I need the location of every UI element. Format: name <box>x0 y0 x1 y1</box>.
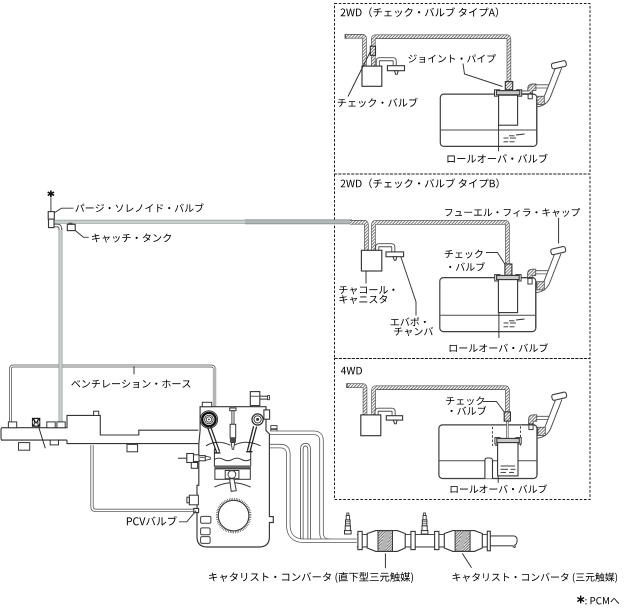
hose: stub to canister (4WD) <box>348 386 365 416</box>
exhaust flange studs <box>271 426 277 429</box>
title 2WD type A <box>341 7 499 17</box>
dashed box: 4WD option <box>335 359 591 500</box>
filler vapor elbow (B) <box>528 269 536 278</box>
fuel level line (B) <box>440 314 535 316</box>
spark plug <box>230 408 236 411</box>
label: charcoal canister line1 (B) <box>339 286 394 295</box>
title 2WD type B <box>341 178 499 188</box>
label: fuel filler cap (B) <box>445 208 580 217</box>
evapo chamber (A) <box>387 66 404 71</box>
tank edge re-stroke (4WD) <box>536 429 538 475</box>
freeze plugs on block side <box>201 516 211 523</box>
charcoal canister (A) <box>362 66 382 86</box>
label: PCV valve <box>127 516 177 525</box>
catalyst substrate hatch (close-coupled TWC) <box>378 531 393 552</box>
leader: catalytic converter 2 <box>462 553 471 567</box>
dashed box: 2WD check-valve type B option <box>335 174 591 359</box>
leader: ventilation hose <box>133 366 135 374</box>
throttle motor symbol M <box>32 418 40 427</box>
flange ring 3 <box>435 531 439 549</box>
fuel level line (A) <box>441 129 536 131</box>
flywheel with ring gear teeth <box>216 498 252 534</box>
connecting rod <box>230 479 237 492</box>
pipe: canister to evapo chamber (4WD) <box>377 410 394 416</box>
check valve (A) <box>370 46 375 55</box>
pipe: canister to evapo chamber (B) <box>377 245 393 252</box>
piston ring band <box>214 465 251 468</box>
hose: main purge line into canister (B) <box>350 222 366 251</box>
tail pipe <box>490 536 514 546</box>
dashed locator box (4WD valve area) <box>493 425 521 445</box>
fuel tank (B) <box>440 278 536 332</box>
leader: joint pipe (A) <box>463 64 503 87</box>
leader: purge solenoid valve <box>55 208 74 212</box>
ventilation hose (big loop to cam cover) <box>11 366 215 427</box>
label: check valve line2 (B) <box>449 262 485 271</box>
catalytic converter body (underfloor TWC) <box>444 531 482 552</box>
leader: PCV valve <box>179 511 196 522</box>
wire from motor symbol <box>39 427 46 449</box>
head right boss <box>264 410 270 419</box>
engine block and cylinder head outline <box>197 407 273 547</box>
evapo chamber (B) <box>386 252 404 257</box>
tank edge re-stroke (A) <box>536 99 538 143</box>
label: evapo chamber line2 (B) <box>394 327 433 336</box>
leader: check valve (A) <box>348 52 370 97</box>
leader: evapo chamber (B) <box>401 257 416 316</box>
wire from asterisk to purge solenoid valve <box>50 197 52 211</box>
hose stub end cap (A) <box>345 34 348 39</box>
leader: roll-over valve (B) <box>498 313 500 338</box>
leader: check valve (B) <box>486 253 505 265</box>
fuel injector <box>187 454 194 463</box>
hose: canister to tank check valve (B) <box>373 222 507 263</box>
leader: catch tank <box>75 231 88 238</box>
purge solenoid valve <box>48 212 54 220</box>
link: check valve to roll-over valve (4WD) <box>506 421 508 439</box>
intake valve stem <box>208 427 217 452</box>
leader: roll-over valve (A) <box>498 125 500 151</box>
fuel surface marks (A) <box>516 134 525 135</box>
charcoal canister (4WD) <box>361 415 381 436</box>
hose stub end cap (4WD) <box>346 383 349 388</box>
fuel level line (4WD) <box>440 460 485 462</box>
PCV valve fitting <box>194 508 199 512</box>
manifold lower bosses <box>19 443 30 451</box>
hose: canister to joint pipe via check valve (A) <box>373 37 509 85</box>
exhaust valve stem <box>250 427 257 452</box>
flange ring 4 <box>487 531 490 551</box>
purge hose down to intake manifold (gray) <box>59 228 63 423</box>
catalyst substrate hatch (underfloor TWC) <box>455 531 470 552</box>
label: joint pipe (A) <box>408 54 495 63</box>
roll-over valve (4WD) <box>495 438 500 444</box>
label: roll-over valve (4WD) <box>451 484 547 493</box>
label: roll-over valve (A) <box>447 154 547 163</box>
intake cam pulley <box>200 411 217 428</box>
leader: catalytic converter 1 <box>384 553 386 568</box>
manifold-to-injector line <box>178 457 187 459</box>
fuel surface marks (B) <box>516 319 525 320</box>
camshaft cap left <box>202 402 211 406</box>
catalytic converter body (close-coupled TWC) <box>367 531 405 552</box>
fuel filler cap (B) <box>550 246 566 255</box>
flange ring 1 <box>358 531 362 549</box>
label: evapo chamber line1 (B) <box>391 317 426 326</box>
flange-to-elbow pipe (A) <box>520 91 530 95</box>
tank tunnel notch (4WD) <box>485 458 493 479</box>
label: purge solenoid valve <box>75 203 203 212</box>
roll-over valve (B) <box>495 275 500 281</box>
filler neck pipe (B) <box>536 253 558 290</box>
filler vapor pipe (B) <box>531 270 551 274</box>
hose: canister to tank check valve (4WD) <box>374 388 508 416</box>
asterisk marker (to PCM) <box>48 191 54 198</box>
label: check valve (A) <box>338 98 418 107</box>
roll-over valve (A) <box>495 90 500 96</box>
fuel marks inside roll-over valve (4WD) <box>501 465 516 467</box>
piston skirt <box>215 469 250 479</box>
exhaust hairpin pipe <box>302 445 309 541</box>
label: catalytic converter 1 <box>209 572 413 583</box>
label: check valve line1 (B) <box>445 250 483 259</box>
oxygen sensor 2 (rear) <box>421 530 428 534</box>
filler neck tank fitting (4WD) <box>538 427 545 435</box>
leader: roll-over valve (4WD) <box>497 476 499 483</box>
purge valve elbow to down hose <box>54 226 61 231</box>
label: catch tank <box>92 233 171 242</box>
long purge hose to option boxes (gray, far part) <box>245 220 352 224</box>
combustion chamber roof <box>206 442 231 446</box>
label: check valve line1 (4WD) <box>446 396 484 405</box>
filler neck pipe (A) <box>537 67 559 104</box>
oxygen sensor 1 (front) <box>345 530 352 534</box>
exhaust front pipe (outer) <box>270 433 357 541</box>
asterisk PCM note marker <box>577 596 584 604</box>
engine left boss <box>189 495 198 505</box>
filler vapor elbow (A) <box>528 84 536 93</box>
cylinder walls <box>213 449 215 467</box>
filler vapor pipe (A) <box>531 84 552 88</box>
exhaust cam pulley <box>252 414 263 425</box>
leader: fuel filler cap (B) <box>558 218 560 244</box>
label: charcoal canister line2 (B) <box>339 295 387 304</box>
tank edge re-stroke (B) <box>535 282 537 328</box>
title 4WD <box>341 367 362 375</box>
filler neck tank fitting (A) <box>537 96 544 104</box>
charcoal canister (B) <box>361 250 381 271</box>
fuel tank (A) <box>440 94 537 146</box>
leader: charcoal canister (B) <box>365 271 367 283</box>
manifold top bosses <box>8 422 16 428</box>
filler vapor pipe (4WD) <box>532 416 552 420</box>
exhaust center pipe through converters <box>357 535 491 547</box>
catch tank <box>69 223 72 225</box>
hose: stub to canister (A) <box>346 36 365 66</box>
oil filler neck <box>250 392 259 406</box>
filler neck tank fitting (B) <box>537 282 544 290</box>
PCV hose from manifold to crankcase <box>92 445 195 510</box>
evapo chamber (4WD) <box>386 416 402 420</box>
leader: check valve (4WD) <box>483 402 505 413</box>
check valve (4WD) <box>504 412 510 421</box>
filler vapor elbow (4WD) <box>529 415 537 424</box>
intake manifold plenum bar <box>1 415 198 440</box>
long purge hose to option boxes (gray, near part) <box>54 220 246 224</box>
exhaust front pipe (inner) <box>270 446 331 541</box>
label: catalytic converter 2 <box>453 573 618 583</box>
label: check valve line2 (4WD) <box>451 406 487 415</box>
flange ring 2 <box>411 531 415 549</box>
fuel filler cap (A) <box>551 60 567 69</box>
filler neck pipe (4WD) <box>537 398 559 435</box>
check valve (B) <box>505 264 512 275</box>
fuel filler cap (4WD) <box>551 392 567 401</box>
joint pipe fitting (A) <box>505 82 512 90</box>
dashed box: 2WD check-valve type A option <box>335 4 591 175</box>
label: to PCM <box>585 597 619 604</box>
wrist pin <box>228 471 236 479</box>
piston crown <box>214 458 250 461</box>
crankcase arch <box>214 483 250 487</box>
pipe: canister to evapo chamber (A) <box>378 59 395 66</box>
label: ventilation hose <box>71 380 190 388</box>
label: roll-over valve (B) <box>450 343 548 352</box>
fuel tank (4WD) <box>439 425 537 479</box>
